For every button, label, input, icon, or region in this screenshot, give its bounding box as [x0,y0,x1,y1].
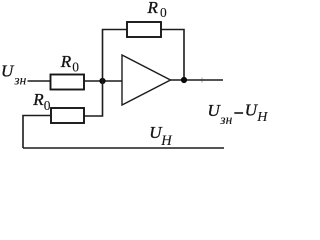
label Uзн − UH (output voltage) [208,101,269,127]
op-amp U1 (amplifier triangle) [122,55,171,105]
svg-text:0: 0 [44,98,51,113]
resistor R0 (feedback) [127,22,161,37]
tick mark on output wire [201,78,203,83]
svg-text:зн: зн [13,73,26,88]
label UH (bottom rail voltage) [149,123,173,149]
wire op-amp output to the right [171,79,224,81]
wire from node A down to lower resistor [84,81,103,116]
svg-text:H: H [256,110,268,125]
resistor R0 (lower input resistor, UH branch) [51,108,84,123]
label Uзн (input voltage) [1,62,27,88]
svg-text:зн: зн [219,112,232,127]
wire from Uзн input to resistor R0 [28,80,51,82]
svg-text:U: U [1,62,15,81]
svg-text:0: 0 [72,59,79,74]
wire from lower resistor left terminal down to bottom rail [23,116,51,149]
resistor R0 (upper input resistor) [51,75,85,90]
wire from resistor to op-amp input through node A [84,80,122,82]
node A (summing junction dot) [99,78,105,84]
label R0 (lower resistor) [32,90,51,113]
wire from feedback resistor right terminal down to node B [161,30,184,81]
svg-text:H: H [160,133,173,149]
svg-text:R: R [60,52,72,71]
wire bottom rail UH [23,147,224,149]
label R0 (upper input resistor) [60,52,79,75]
node B (output junction dot) [181,77,187,83]
svg-text:0: 0 [160,5,167,20]
wire feedback: node A up and right to feedback resistor [103,30,128,82]
svg-text:R: R [147,0,159,17]
label R0 (feedback resistor) [147,0,168,20]
svg-text:R: R [32,90,44,109]
